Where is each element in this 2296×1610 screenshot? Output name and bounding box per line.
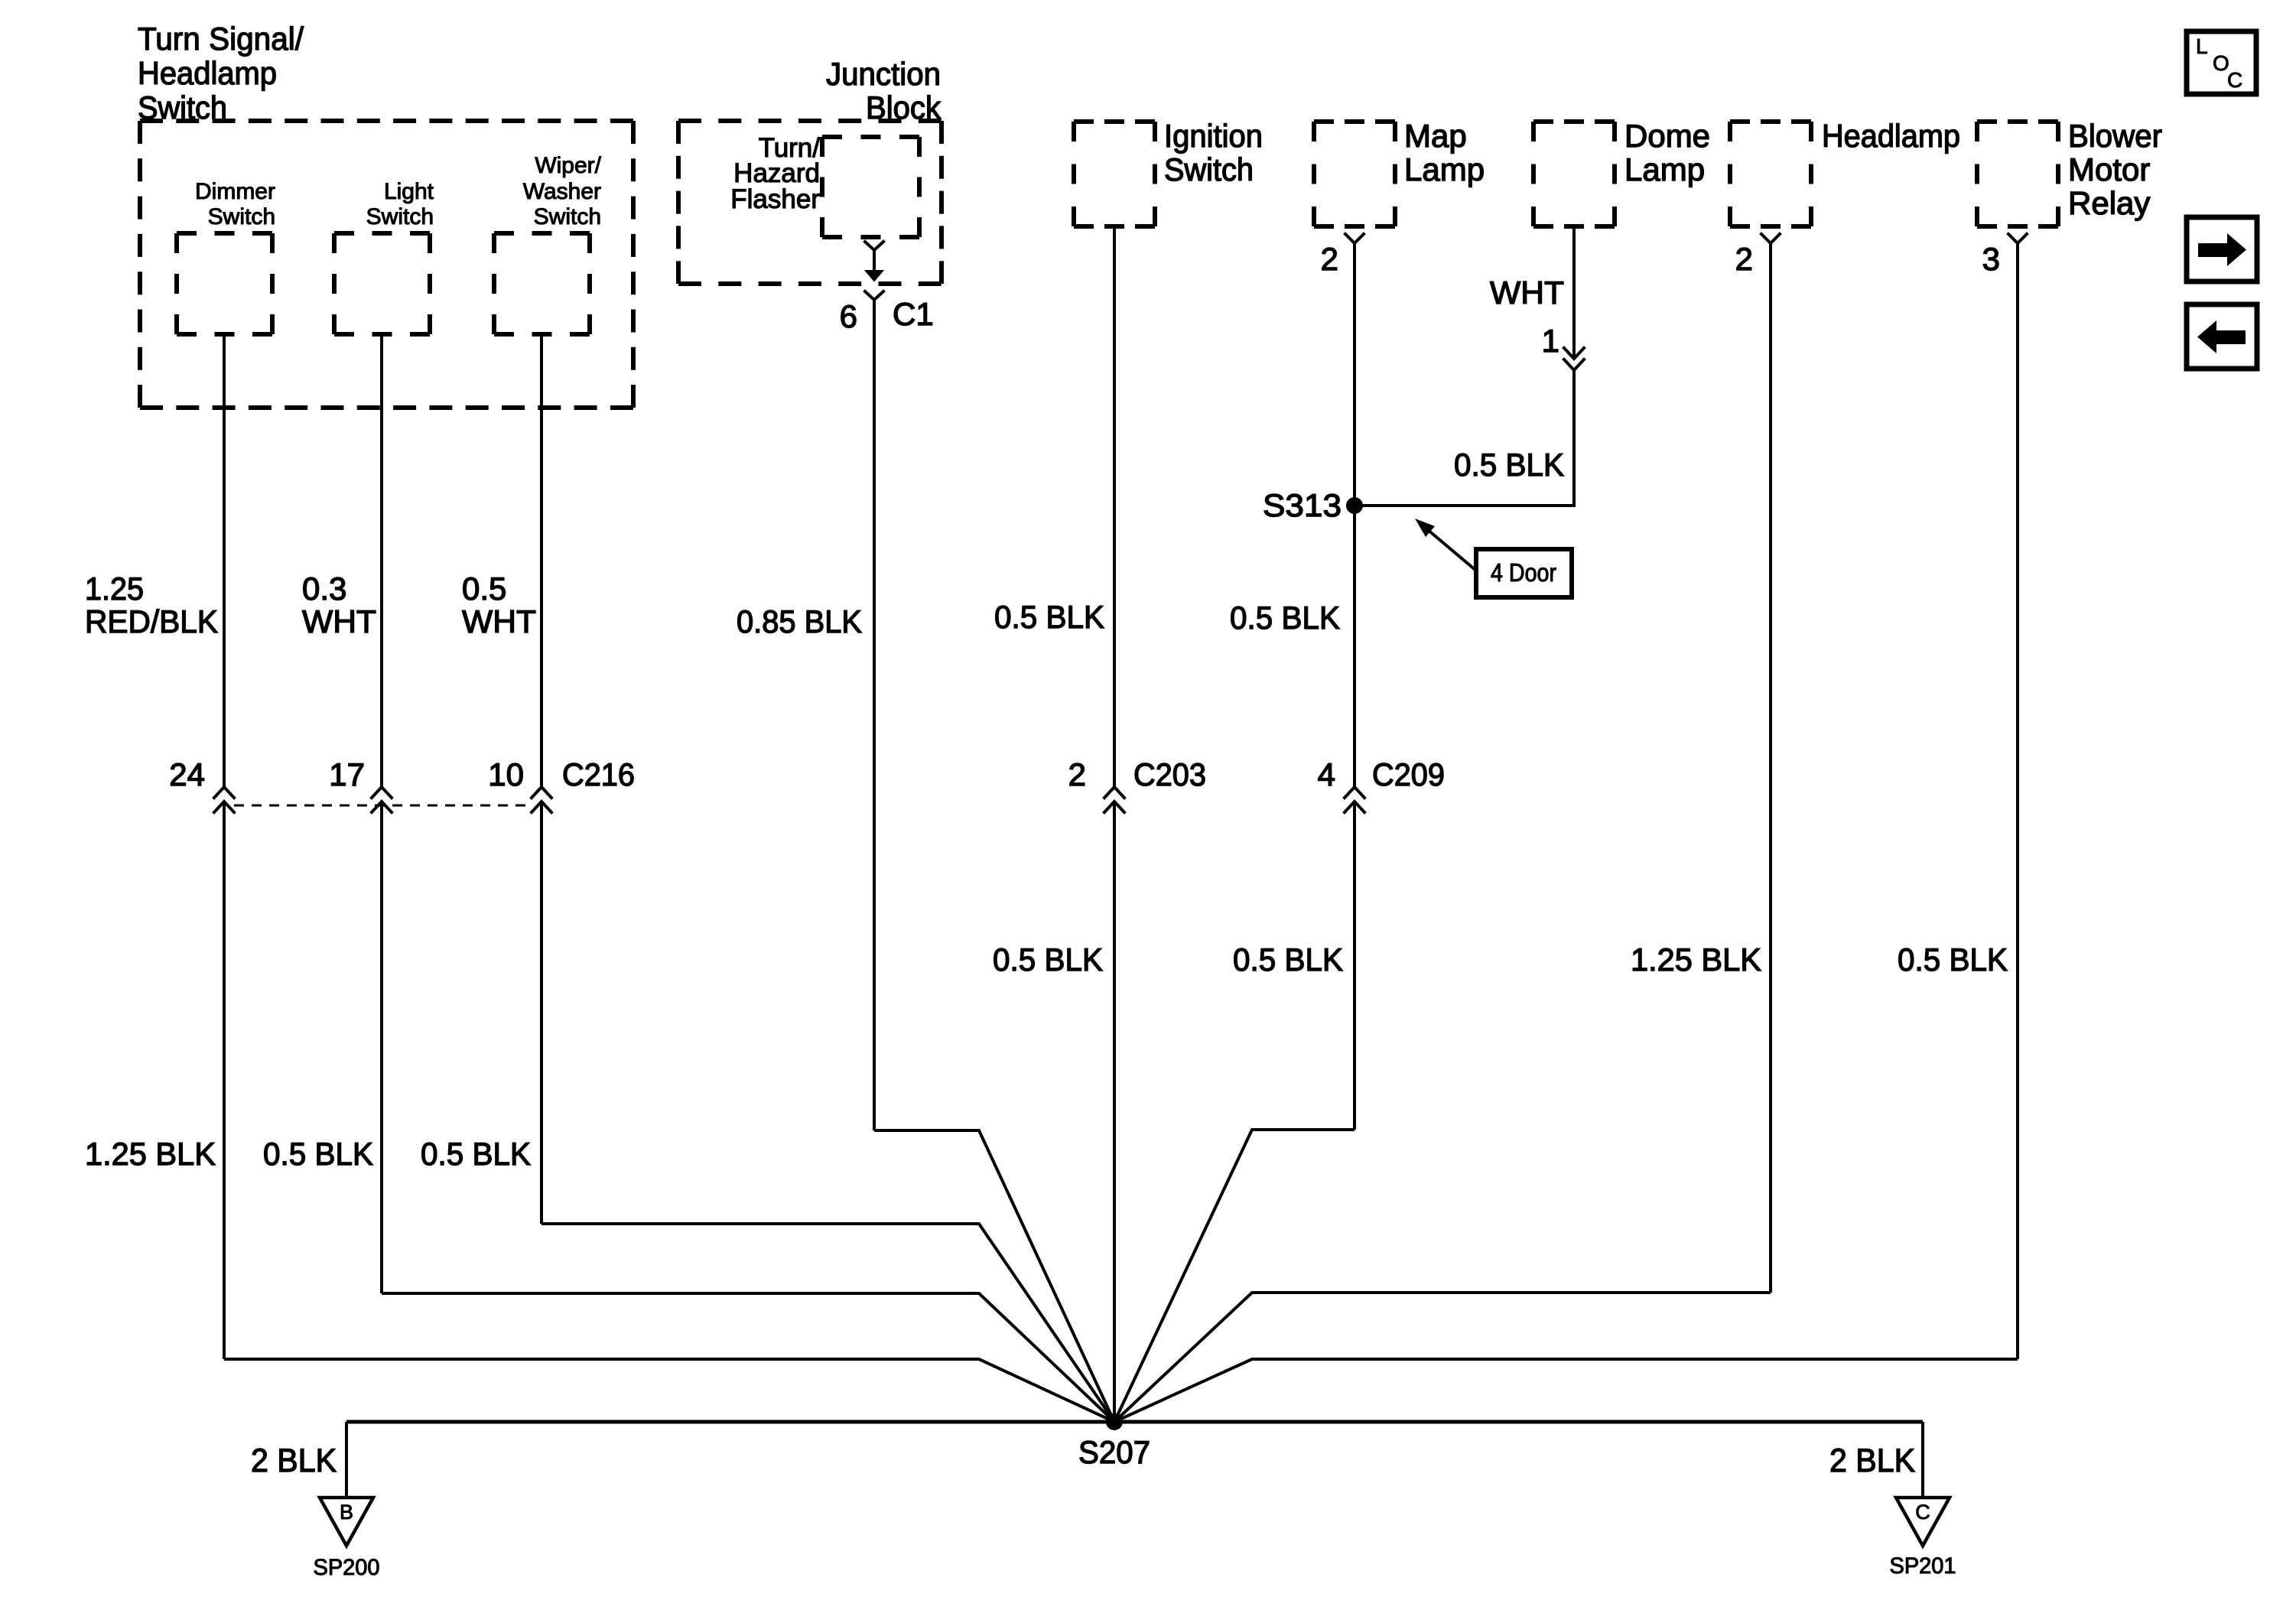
splice S313 xyxy=(1263,487,1363,523)
wire headlamp to S207 (1.25 BLK) xyxy=(1114,243,1771,1422)
switch Dimmer Switch xyxy=(177,179,275,334)
svg-text:B: B xyxy=(340,1501,353,1524)
svg-text:Motor: Motor xyxy=(2068,151,2150,187)
svg-text:SP201: SP201 xyxy=(1890,1553,1956,1579)
svg-text:1.25 BLK: 1.25 BLK xyxy=(1631,942,1761,977)
svg-text:Lamp: Lamp xyxy=(1404,151,1485,187)
svg-text:Junction: Junction xyxy=(826,56,941,92)
svg-text:3: 3 xyxy=(1982,241,2000,277)
svg-text:C: C xyxy=(2227,68,2242,92)
wire map lamp to S207 (0.5 BLK) xyxy=(1114,243,1355,1422)
svg-text:1: 1 xyxy=(1542,323,1559,359)
wire wiper/washer switch to S207 (0.5 WHT -> 0.5 BLK) xyxy=(541,334,1114,1422)
svg-text:C: C xyxy=(1915,1501,1930,1524)
svg-text:4 Door: 4 Door xyxy=(1491,558,1556,587)
svg-text:S313: S313 xyxy=(1263,487,1342,523)
svg-text:0.5 BLK: 0.5 BLK xyxy=(263,1136,373,1172)
svg-text:RED/BLK: RED/BLK xyxy=(85,603,218,639)
callout 4 Door xyxy=(1415,519,1572,597)
svg-text:0.5 BLK: 0.5 BLK xyxy=(421,1136,531,1172)
svg-text:Switch: Switch xyxy=(366,204,434,229)
switch Wiper/Washer Switch xyxy=(494,153,602,334)
component Ignition Switch xyxy=(1074,118,1263,226)
wire ignition switch to S207 (0.5 BLK) xyxy=(1113,226,1116,1422)
connector C209 pin 4 xyxy=(1318,756,1445,812)
svg-text:C209: C209 xyxy=(1372,756,1445,792)
svg-text:17: 17 xyxy=(329,756,365,792)
wire ground bus S207 to SP200 and SP201 xyxy=(346,1422,1923,1498)
svg-text:Switch: Switch xyxy=(534,204,601,229)
component Headlamp xyxy=(1730,118,1960,277)
wire dimmer switch to S207 (1.25 RED/BLK -> 1.25 BLK) xyxy=(224,334,1114,1422)
svg-text:24: 24 xyxy=(169,756,205,792)
wire dome lamp to S313 (WHT / 0.5 BLK) xyxy=(1355,226,1574,506)
svg-text:0.5 BLK: 0.5 BLK xyxy=(994,599,1104,635)
svg-text:0.5 BLK: 0.5 BLK xyxy=(1233,942,1343,977)
svg-text:Flasher: Flasher xyxy=(730,184,820,214)
svg-text:WHT: WHT xyxy=(302,603,376,639)
wire labels lower group xyxy=(85,942,2008,1172)
svg-text:C1: C1 xyxy=(893,296,934,332)
connector C203 pin 2 xyxy=(1068,756,1206,812)
svg-text:Switch: Switch xyxy=(208,204,275,229)
wire light switch to S207 (0.3 WHT -> 0.5 BLK) xyxy=(382,334,1114,1422)
svg-text:C216: C216 xyxy=(562,756,635,792)
svg-text:Dome: Dome xyxy=(1624,118,1710,154)
svg-text:Map: Map xyxy=(1404,118,1467,154)
svg-text:6: 6 xyxy=(840,298,857,334)
svg-text:WHT: WHT xyxy=(462,603,536,639)
svg-text:C203: C203 xyxy=(1133,756,1206,792)
svg-text:Relay: Relay xyxy=(2068,185,2150,221)
svg-text:Blower: Blower xyxy=(2068,118,2162,154)
ground SP201 (triangle C) xyxy=(1829,1442,1956,1579)
svg-text:Turn Signal/: Turn Signal/ xyxy=(138,21,304,57)
svg-text:Lamp: Lamp xyxy=(1624,151,1705,187)
svg-text:WHT: WHT xyxy=(1490,275,1564,311)
svg-text:0.5 BLK: 0.5 BLK xyxy=(1898,942,2008,977)
svg-text:Washer: Washer xyxy=(523,179,601,204)
svg-text:2: 2 xyxy=(1735,241,1753,277)
component Turn Signal/Headlamp Switch xyxy=(138,21,633,408)
svg-text:Headlamp: Headlamp xyxy=(1822,118,1960,154)
splice S207 xyxy=(1078,1413,1150,1470)
svg-text:S207: S207 xyxy=(1078,1434,1150,1470)
component Map Lamp xyxy=(1314,118,1485,277)
svg-text:1.25 BLK: 1.25 BLK xyxy=(85,1136,216,1172)
svg-text:0.5 BLK: 0.5 BLK xyxy=(1454,447,1564,483)
legend LOC box xyxy=(2187,31,2256,94)
ground SP200 (triangle B) xyxy=(251,1442,380,1580)
svg-text:0.5: 0.5 xyxy=(462,571,506,607)
svg-text:2: 2 xyxy=(1068,756,1086,792)
connector C1 pin 6 (junction block output) xyxy=(840,242,934,334)
svg-text:Light: Light xyxy=(384,179,434,204)
component Blower Motor Relay xyxy=(1977,118,2162,277)
component Dome Lamp xyxy=(1533,118,1710,226)
svg-text:Headlamp: Headlamp xyxy=(138,55,277,91)
svg-text:1.25: 1.25 xyxy=(85,571,144,607)
component Junction Block xyxy=(678,56,941,284)
svg-text:2: 2 xyxy=(1321,241,1338,277)
svg-text:L: L xyxy=(2196,34,2208,58)
svg-text:0.5 BLK: 0.5 BLK xyxy=(1230,600,1340,636)
wire labels left group xyxy=(85,571,1340,639)
relay Turn/Hazard Flasher xyxy=(730,133,919,237)
svg-text:0.5 BLK: 0.5 BLK xyxy=(993,942,1103,977)
wire junction block to S207 (0.85 BLK) xyxy=(874,300,1114,1422)
svg-text:Switch: Switch xyxy=(1164,151,1254,187)
wire blower motor relay to S207 (0.5 BLK) xyxy=(1114,243,2018,1422)
connector pin 1 (dome lamp) xyxy=(1454,275,1584,483)
svg-text:Ignition: Ignition xyxy=(1164,118,1263,154)
svg-text:0.85 BLK: 0.85 BLK xyxy=(737,603,862,639)
svg-text:0.3: 0.3 xyxy=(302,571,346,607)
svg-text:Wiper/: Wiper/ xyxy=(535,153,601,178)
legend left arrow box xyxy=(2187,304,2257,369)
svg-text:4: 4 xyxy=(1318,756,1335,792)
svg-text:SP200: SP200 xyxy=(314,1555,380,1580)
svg-text:2 BLK: 2 BLK xyxy=(1829,1442,1915,1479)
connector C216 pins 24/17/10 xyxy=(169,756,635,812)
svg-text:10: 10 xyxy=(488,756,524,792)
switch Light Switch xyxy=(334,179,434,334)
legend right arrow box xyxy=(2187,217,2257,281)
svg-text:Dimmer: Dimmer xyxy=(195,179,275,204)
svg-text:2 BLK: 2 BLK xyxy=(251,1442,337,1479)
